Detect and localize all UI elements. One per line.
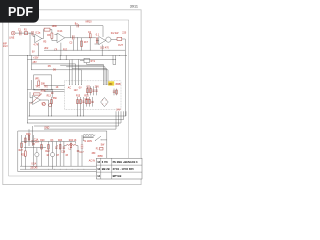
capacitor C18 bbox=[91, 97, 93, 107]
resistor R15 bbox=[77, 97, 79, 116]
wire amp rail bbox=[24, 147, 46, 149]
op-amp U1 bbox=[35, 34, 42, 43]
resistor R25 bbox=[86, 97, 88, 107]
wire to U2 input bbox=[52, 34, 57, 40]
svg-text:56K: 56K bbox=[53, 98, 58, 100]
connector jack JP1 bbox=[42, 102, 45, 105]
capacitor C16 electrolytic bbox=[63, 142, 65, 167]
wire box feeds bbox=[29, 126, 33, 146]
resistor R28 bbox=[25, 135, 27, 151]
resistor R6 bbox=[81, 38, 83, 50]
svg-text:R20: R20 bbox=[26, 134, 31, 136]
svg-text:R15: R15 bbox=[76, 96, 81, 98]
svg-text:C11: C11 bbox=[86, 87, 91, 89]
svg-text:1K: 1K bbox=[56, 87, 59, 89]
wire drop junction bbox=[77, 38, 79, 50]
resistor R23 bbox=[59, 142, 61, 167]
svg-text:450B: 450B bbox=[115, 84, 121, 86]
capacitor C14 bbox=[31, 141, 33, 142]
tone control block box bbox=[34, 75, 52, 90]
wire input signal bbox=[15, 33, 35, 36]
wire bus rail C bbox=[31, 69, 82, 71]
resistor R24 bbox=[70, 142, 72, 167]
transistor Q1 bbox=[106, 37, 111, 42]
wire channel line 5 bbox=[44, 111, 116, 129]
svg-text:R21: R21 bbox=[21, 154, 26, 156]
svg-text:LINE: LINE bbox=[9, 38, 15, 40]
wire bus rail A bbox=[27, 59, 116, 61]
svg-text:+15V: +15V bbox=[33, 58, 39, 60]
capacitor C3 bbox=[73, 35, 74, 50]
svg-text:PH 2BH +BENACE 3: PH 2BH +BENACE 3 bbox=[113, 160, 138, 164]
svg-text:4K7: 4K7 bbox=[84, 42, 89, 44]
transistor Q3 bbox=[50, 142, 54, 170]
wire top supply bus bbox=[20, 26, 103, 38]
svg-text:R23: R23 bbox=[58, 140, 63, 142]
wire ground bus main bbox=[9, 54, 127, 56]
label input level bbox=[3, 44, 8, 48]
junction dots channel bbox=[27, 116, 84, 124]
svg-text:1K5 470: 1K5 470 bbox=[100, 47, 109, 49]
wire U3 inputs bbox=[95, 41, 99, 45]
svg-text:100K: 100K bbox=[52, 26, 58, 28]
wire U3 output bbox=[111, 39, 125, 116]
svg-text:AC IN: AC IN bbox=[89, 159, 95, 162]
wire rail jumpers bbox=[32, 55, 67, 89]
svg-text:AC: AC bbox=[68, 87, 72, 90]
resistor R26 bbox=[89, 97, 91, 107]
op-amp U4 bbox=[33, 96, 41, 105]
capacitor C12 bbox=[95, 86, 97, 95]
power supply dashed box bbox=[65, 81, 122, 110]
bridge rectifier D1 bbox=[101, 98, 109, 107]
svg-text:4.7K: 4.7K bbox=[34, 44, 39, 46]
svg-text:2mV: 2mV bbox=[3, 46, 8, 48]
svg-text:4558: 4558 bbox=[97, 156, 103, 158]
resistor R13 bbox=[51, 97, 53, 116]
svg-text:GND: GND bbox=[44, 127, 49, 129]
junction dots upper bus bbox=[54, 49, 109, 52]
capacitor C17 bbox=[76, 142, 80, 167]
svg-text:R25: R25 bbox=[84, 96, 89, 98]
svg-text:0.5A: 0.5A bbox=[31, 163, 36, 166]
svg-text:IC1b: IC1b bbox=[57, 31, 63, 33]
resistor R1 bbox=[24, 32, 27, 35]
svg-text:2K2: 2K2 bbox=[44, 48, 49, 50]
capacitor C13 bbox=[113, 89, 115, 96]
transistor Q2 bbox=[35, 148, 39, 167]
capacitor C1 bbox=[20, 31, 21, 35]
schematic border frame bbox=[9, 20, 129, 176]
potentiometer wiper VR1 bbox=[31, 94, 43, 105]
svg-text:-15V: -15V bbox=[32, 62, 37, 64]
capacitor C4 bbox=[89, 34, 91, 51]
svg-text:RY1: RY1 bbox=[91, 61, 96, 63]
resistor R21 bbox=[24, 151, 26, 169]
wire PSU feed stairs bbox=[60, 65, 108, 70]
amplifier block box bbox=[18, 131, 107, 172]
wire PSU pins bbox=[70, 60, 82, 85]
svg-text:IC1a: IC1a bbox=[35, 33, 41, 35]
wire bus rail B bbox=[32, 63, 76, 65]
title block table bbox=[96, 158, 142, 179]
label mid row values bbox=[44, 48, 68, 52]
junction dots rails bbox=[31, 58, 116, 61]
svg-text:0V: 0V bbox=[79, 88, 82, 90]
svg-text:R29: R29 bbox=[40, 140, 45, 142]
svg-text:BB 2B: BB 2B bbox=[102, 167, 110, 171]
wire U2 output bbox=[65, 37, 96, 39]
resistor R11 feedback U4 bbox=[34, 93, 41, 95]
PDF badge bbox=[0, 0, 39, 23]
connector jack JP2 bbox=[49, 104, 52, 107]
highlight marker bbox=[108, 81, 114, 85]
label PSU pin row bbox=[68, 87, 82, 92]
wire switch to box edge bbox=[101, 139, 107, 141]
wire amp ground bus A bbox=[20, 165, 96, 167]
resistor R27 bbox=[21, 135, 23, 166]
svg-text:2YO1 - 13YO PA5: 2YO1 - 13YO PA5 bbox=[113, 167, 135, 171]
capacitor C22 bbox=[51, 89, 53, 97]
wire K1 to pin header bbox=[87, 55, 116, 64]
resistor R19 bbox=[116, 89, 118, 96]
wire channel line 1 bbox=[28, 111, 126, 116]
wire channel line 2 bbox=[28, 111, 123, 119]
inductor L1 bbox=[64, 144, 78, 145]
resistor R17 bbox=[87, 86, 89, 95]
wire U3 ground leg bbox=[101, 45, 103, 56]
relay K1 box bbox=[80, 58, 89, 62]
op-amp U3 bbox=[99, 37, 106, 45]
svg-text:VR1: VR1 bbox=[35, 79, 40, 81]
svg-text:24V: 24V bbox=[116, 110, 121, 112]
svg-text:50K: 50K bbox=[41, 83, 46, 85]
svg-text:IC2 4W: IC2 4W bbox=[111, 33, 119, 35]
junction dots PSU pins bbox=[69, 83, 108, 86]
capacitor C21 on bus bbox=[77, 24, 78, 27]
connector J1 line input bbox=[11, 31, 15, 35]
capacitor C5 input U3 bbox=[96, 37, 97, 43]
wire T1 taps bbox=[83, 135, 95, 141]
junction dots ground bus bbox=[27, 54, 120, 57]
svg-text:R12: R12 bbox=[63, 50, 68, 52]
resistor R20 bbox=[28, 136, 30, 141]
wire drop to ground bus bbox=[29, 33, 31, 55]
fuse F1 bbox=[100, 147, 103, 150]
svg-text:NR10: NR10 bbox=[86, 22, 93, 24]
svg-text:OUT: OUT bbox=[118, 45, 123, 47]
capacitor C15 bbox=[55, 142, 57, 167]
wire left trunk bbox=[26, 55, 28, 123]
svg-text:6 7/8: 6 7/8 bbox=[102, 160, 108, 164]
svg-text:25V: 25V bbox=[95, 87, 100, 89]
svg-text:C16: C16 bbox=[61, 152, 66, 154]
wire U2 ground leg bbox=[60, 43, 62, 56]
capacitor C10 bbox=[82, 97, 84, 116]
svg-text:1K: 1K bbox=[74, 140, 77, 142]
svg-text:R27: R27 bbox=[19, 150, 24, 152]
op-amp U2 bbox=[57, 33, 65, 43]
resistor R18 bbox=[90, 86, 92, 95]
svg-text:T1 100V: T1 100V bbox=[83, 141, 92, 143]
resistor R3 vertical bbox=[51, 33, 53, 38]
svg-text:R13: R13 bbox=[47, 96, 52, 98]
junction dots amp bus bbox=[25, 166, 84, 170]
node junction input bbox=[29, 32, 32, 35]
transformer T1 bbox=[83, 134, 93, 137]
resistor R10 bbox=[38, 81, 40, 85]
junction dots monitor bus bbox=[34, 88, 53, 91]
svg-text:PDF: PDF bbox=[8, 5, 33, 19]
svg-text:TP2: TP2 bbox=[44, 87, 49, 89]
switch SW1 bbox=[95, 136, 101, 141]
wire channel line 3 bbox=[27, 111, 121, 123]
capacitor C20 bbox=[81, 135, 83, 166]
wire U1 ground leg bbox=[37, 43, 39, 56]
wire monitor bus bbox=[27, 86, 64, 92]
wire U4 output bbox=[41, 100, 49, 116]
resistor R29 bbox=[41, 142, 43, 167]
wire channel line 4 bbox=[34, 111, 119, 126]
resistor R2 bbox=[44, 28, 50, 31]
resistor R22 bbox=[48, 142, 50, 167]
wire amp ground bus B bbox=[20, 168, 96, 170]
resistor R16 bbox=[80, 97, 82, 116]
wire U4 inputs bbox=[30, 92, 33, 116]
resistor R9 bbox=[117, 37, 122, 40]
svg-text:R22: R22 bbox=[45, 151, 50, 153]
svg-text:3911: 3911 bbox=[130, 5, 138, 9]
wire U1 feedback riser bbox=[42, 30, 52, 39]
svg-text:0V: 0V bbox=[32, 52, 35, 54]
page card bbox=[3, 10, 141, 185]
wire amp row rail bbox=[22, 141, 76, 143]
node output junction bbox=[76, 36, 79, 39]
capacitor C19 bbox=[32, 135, 34, 166]
wire ground bus upper bbox=[44, 49, 125, 51]
wire PSU feed bundle bbox=[104, 65, 109, 85]
svg-text:BPYLB: BPYLB bbox=[113, 174, 122, 178]
svg-text:TP1: TP1 bbox=[35, 87, 40, 89]
svg-text:12V: 12V bbox=[74, 90, 79, 92]
capacitor C2 bbox=[32, 31, 33, 35]
capacitor C11 bbox=[92, 86, 94, 95]
